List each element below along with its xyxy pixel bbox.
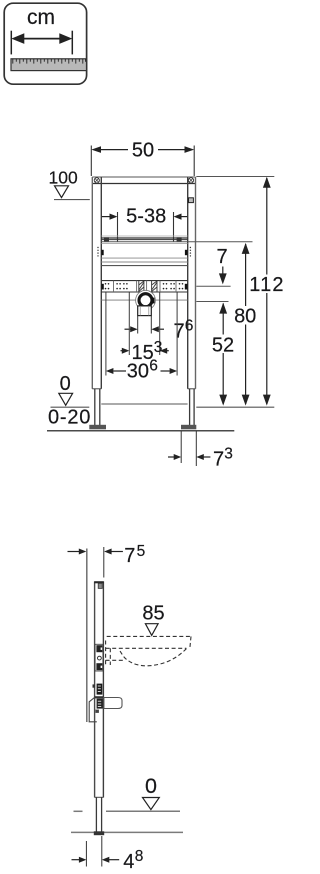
svg-text:7: 7: [213, 449, 224, 471]
svg-text:112: 112: [249, 274, 285, 296]
svg-text:5: 5: [137, 543, 146, 560]
svg-text:7: 7: [216, 246, 227, 268]
svg-text:100: 100: [49, 167, 78, 187]
svg-text:6: 6: [149, 358, 158, 375]
svg-text:0: 0: [60, 373, 71, 395]
svg-text:85: 85: [142, 602, 164, 624]
svg-text:4: 4: [123, 851, 134, 873]
svg-text:3: 3: [154, 339, 163, 356]
svg-text:52: 52: [212, 335, 234, 357]
svg-text:6: 6: [185, 318, 194, 335]
svg-text:50: 50: [132, 140, 154, 162]
svg-text:3: 3: [224, 446, 233, 463]
svg-text:7: 7: [174, 321, 185, 343]
svg-text:80: 80: [234, 306, 256, 328]
svg-text:30: 30: [127, 361, 149, 383]
svg-text:cm: cm: [27, 6, 55, 29]
svg-text:0-20: 0-20: [48, 406, 91, 428]
svg-text:8: 8: [135, 848, 144, 865]
svg-text:5-38: 5-38: [126, 206, 166, 228]
svg-text:0: 0: [145, 774, 157, 798]
svg-text:7: 7: [124, 545, 135, 567]
